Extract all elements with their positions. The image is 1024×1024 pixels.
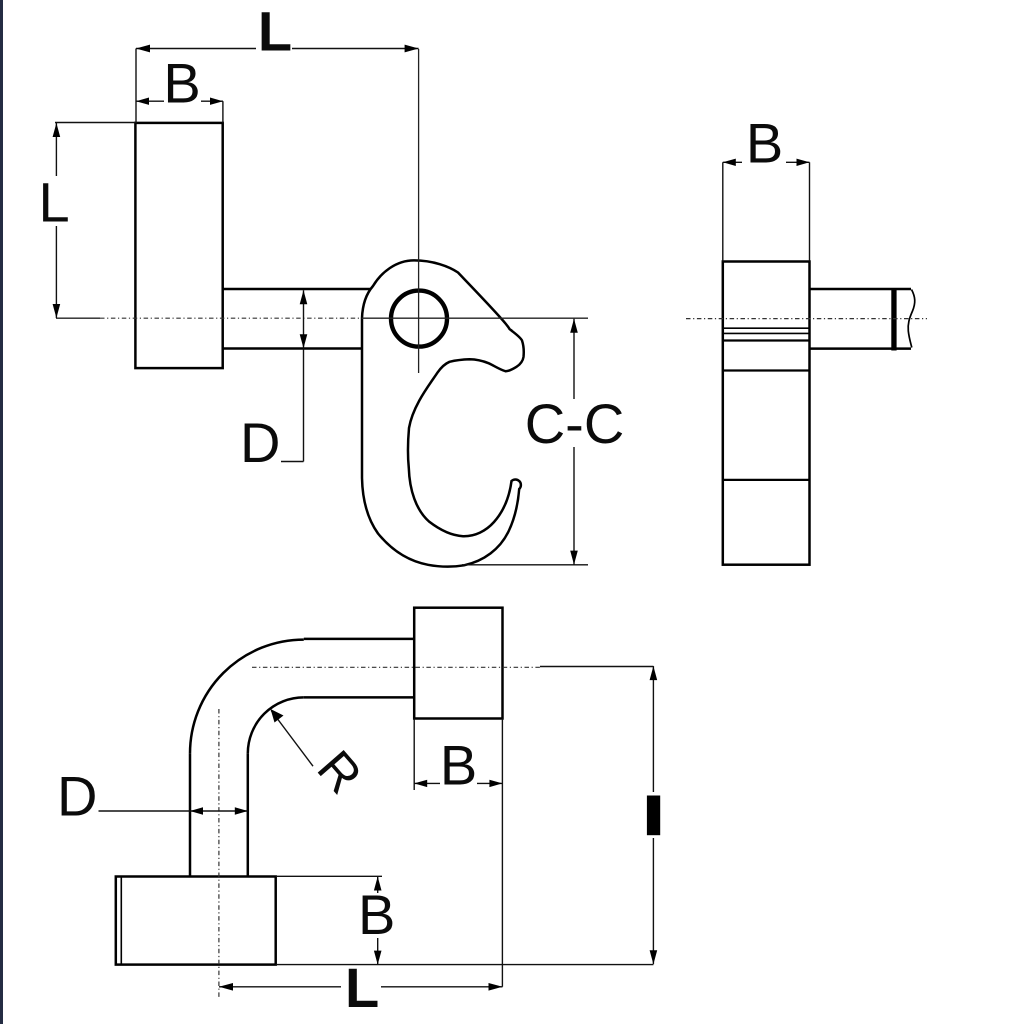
svg-text:B: B bbox=[358, 883, 395, 946]
dimension B side: left arrow bbox=[723, 159, 736, 166]
dimension D front view: vertical line with arrows bbox=[303, 290, 305, 461]
dimension B side: right arrow bbox=[797, 159, 810, 166]
shaft side view end cap bar bbox=[891, 288, 896, 351]
dimension B flange height: down arrow bbox=[374, 951, 382, 965]
dimension B flange height: top extension line bbox=[276, 875, 382, 877]
dimension D front: up arrow bbox=[300, 290, 308, 304]
dimension C-C: bottom arrow bbox=[570, 551, 578, 565]
vertical centerline through hole bbox=[418, 49, 420, 373]
flange side view joint line 2 bbox=[723, 479, 810, 481]
svg-text:D: D bbox=[57, 765, 97, 828]
dimension L top: left extension line bbox=[135, 49, 137, 124]
dimension B top-left: left arrow bbox=[136, 98, 149, 105]
dimension L left: top arrow bbox=[53, 123, 61, 137]
svg-text:B: B bbox=[163, 52, 200, 115]
svg-text:L: L bbox=[345, 956, 379, 1019]
bottom view vertical centerline dash-dot bbox=[218, 709, 220, 999]
flange block side view bbox=[723, 262, 810, 565]
dimension B flange height: line upper bbox=[377, 877, 379, 894]
dimension D bottom: left arrow bbox=[190, 807, 203, 814]
horizontal centerline solid left stub bbox=[56, 317, 100, 319]
svg-text:D: D bbox=[240, 411, 280, 474]
bottom view flange block bbox=[116, 877, 276, 965]
dimension C-C: top arrow bbox=[570, 319, 578, 333]
dimension I: label bbox=[647, 796, 660, 836]
dimension I: down arrow bbox=[650, 950, 658, 964]
dimension B top-left: line bbox=[136, 100, 164, 102]
dimension B side: right extension line bbox=[809, 162, 811, 261]
dimension L top: left arrow bbox=[136, 45, 150, 53]
dimension R: arrow bbox=[271, 709, 284, 723]
dimension D bottom: leader line bbox=[99, 810, 248, 812]
tube outer vertical line bbox=[189, 753, 192, 876]
dimension B top-left: right extension line bbox=[222, 101, 224, 123]
dimension L left: bottom arrow bbox=[53, 304, 61, 318]
page left border bar bbox=[0, 0, 3, 1024]
dimension L bottom: left arrow bbox=[219, 983, 233, 991]
svg-text:B: B bbox=[440, 734, 477, 797]
tube outer bend arc bbox=[190, 640, 304, 754]
svg-text:B: B bbox=[746, 112, 783, 175]
dimension L left: top extension line bbox=[55, 122, 135, 124]
dimension L left: line lower segment bbox=[55, 226, 57, 318]
dimension B side view: line segments bbox=[723, 161, 742, 163]
shaft top line front view bbox=[223, 288, 370, 291]
hook hole circle bbox=[391, 291, 447, 347]
dimension B side: left extension line bbox=[722, 162, 724, 261]
shaft break squiggle bbox=[908, 290, 915, 348]
dimension C-C: line upper segment bbox=[573, 319, 575, 399]
bottom edge extension line long bbox=[276, 964, 654, 966]
flange block front view bbox=[135, 123, 222, 368]
dimension B hook-end: left arrow bbox=[414, 780, 427, 787]
dimension I: up arrow bbox=[650, 666, 658, 680]
flange side view thread line 1 bbox=[723, 327, 810, 329]
tube inner vertical line bbox=[247, 753, 250, 876]
svg-text:L: L bbox=[39, 171, 70, 234]
dimension D front: down arrow bbox=[300, 334, 308, 348]
dimension D front: bottom tick bbox=[281, 461, 304, 463]
bottom view flange double edge line bbox=[120, 877, 122, 965]
dimension B flange height: line lower bbox=[377, 938, 379, 965]
dimension B hook-end block: line bbox=[414, 782, 440, 784]
dimension D bottom: right arrow bbox=[235, 807, 248, 814]
bottom view hook end block bbox=[414, 608, 502, 719]
bottom view horizontal centerline dash-dot bbox=[252, 666, 540, 668]
dimension B hook-end: left extension line bbox=[413, 719, 415, 791]
svg-text:L: L bbox=[258, 0, 292, 63]
dimension B top-left: right arrow bbox=[210, 98, 223, 105]
dimension B hook-end: right arrow bbox=[489, 780, 502, 787]
dimension L left: line upper segment bbox=[55, 123, 57, 176]
tube bottom inner line bbox=[304, 696, 414, 699]
svg-text:C-C: C-C bbox=[525, 392, 625, 455]
flange side view joint line 1 bbox=[723, 369, 810, 371]
dimension R: leader line bbox=[271, 711, 313, 767]
side view centerline dash-dot bbox=[686, 318, 927, 320]
tube top outer line bbox=[304, 638, 414, 641]
horizontal centerline dash-dot bbox=[100, 317, 363, 319]
dimension C-C: line lower segment bbox=[573, 447, 575, 565]
dimension C-C: bottom extension line bbox=[462, 564, 588, 566]
shaft side view bottom line bbox=[810, 347, 912, 350]
dimension I: line lower segment bbox=[652, 838, 654, 964]
flange side view thread line 3 bbox=[723, 339, 810, 341]
shaft bottom line front view bbox=[223, 347, 368, 350]
dimension L top: line bbox=[136, 48, 256, 50]
hook body outline bbox=[362, 260, 524, 566]
shaft side view top line bbox=[810, 288, 912, 291]
dimension L bottom: line segments bbox=[219, 986, 341, 988]
flange side view thread line 2 bbox=[723, 332, 810, 334]
dimension L bottom: right arrow bbox=[489, 983, 503, 991]
section line through hook to C-C bbox=[363, 317, 588, 319]
dimension B hook-end: right extension line long bbox=[501, 719, 503, 987]
tube inner bend arc bbox=[248, 697, 304, 753]
dimension B flange height: up arrow bbox=[374, 877, 382, 891]
dimension L top: right arrow bbox=[405, 45, 419, 53]
dimension I: line upper segment bbox=[652, 666, 654, 792]
